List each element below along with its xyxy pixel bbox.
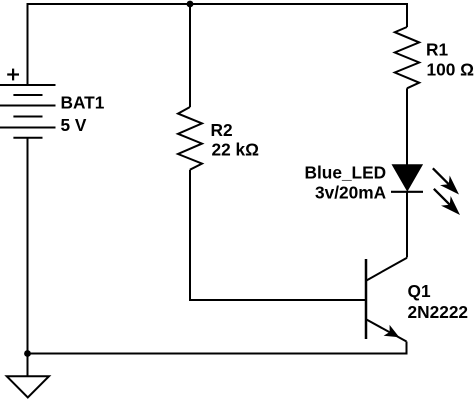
svg-text:22 kΩ: 22 kΩ (212, 140, 260, 160)
wire emitter to bottom rail (28, 342, 407, 354)
resistor R2 (178, 107, 202, 170)
svg-text:Q1: Q1 (408, 281, 431, 301)
svg-text:3v/20mA: 3v/20mA (315, 182, 387, 202)
transistor Q1 emitter arrowhead (384, 325, 403, 343)
battery BAT1 plus sign (7, 69, 19, 81)
transistor Q1 collector (366, 258, 407, 281)
wire R2 bottom to transistor base (190, 170, 366, 300)
resistor R2 lead from top junction (189, 4, 191, 107)
svg-text:R2: R2 (211, 120, 233, 140)
wire battery negative to bottom rail (27, 138, 29, 354)
svg-text:BAT1: BAT1 (61, 93, 105, 113)
battery BAT1 plates (0, 85, 56, 138)
node top junction (187, 1, 194, 8)
LED cathode bar (391, 191, 423, 193)
transistor Q1 emitter (366, 319, 407, 341)
resistor R1 (395, 27, 419, 88)
wire top rail junction to R1 (190, 4, 407, 27)
wire LED to transistor collector (406, 192, 408, 258)
transistor Q1 base bar (365, 259, 368, 339)
wire R1 to LED (406, 88, 408, 165)
wire battery positive to top rail (28, 4, 191, 85)
LED light arrow 1 (428, 164, 464, 200)
svg-text:Blue_LED: Blue_LED (305, 163, 387, 183)
svg-text:R1: R1 (426, 40, 448, 60)
ground (7, 376, 49, 397)
svg-text:2N2222: 2N2222 (408, 302, 469, 322)
node bottom junction (24, 350, 31, 357)
svg-text:100 Ω: 100 Ω (427, 60, 474, 80)
svg-text:5 V: 5 V (61, 115, 87, 135)
wire to ground (27, 354, 29, 377)
LED light arrow 2 (429, 184, 465, 220)
LED D1 triangle (393, 165, 422, 190)
